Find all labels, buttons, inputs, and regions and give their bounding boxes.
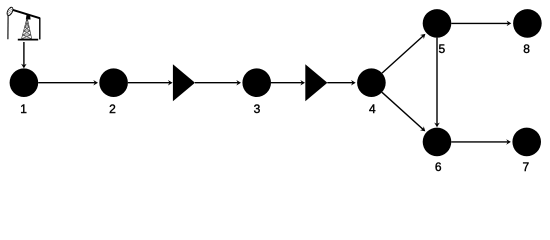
svg-text:6: 6 [435, 160, 442, 174]
svg-text:8: 8 [523, 42, 530, 56]
svg-text:4: 4 [369, 102, 376, 116]
svg-text:3: 3 [254, 102, 261, 116]
svg-text:1: 1 [20, 102, 27, 116]
svg-text:5: 5 [438, 42, 445, 56]
svg-text:7: 7 [523, 160, 530, 174]
svg-text:2: 2 [109, 102, 116, 116]
